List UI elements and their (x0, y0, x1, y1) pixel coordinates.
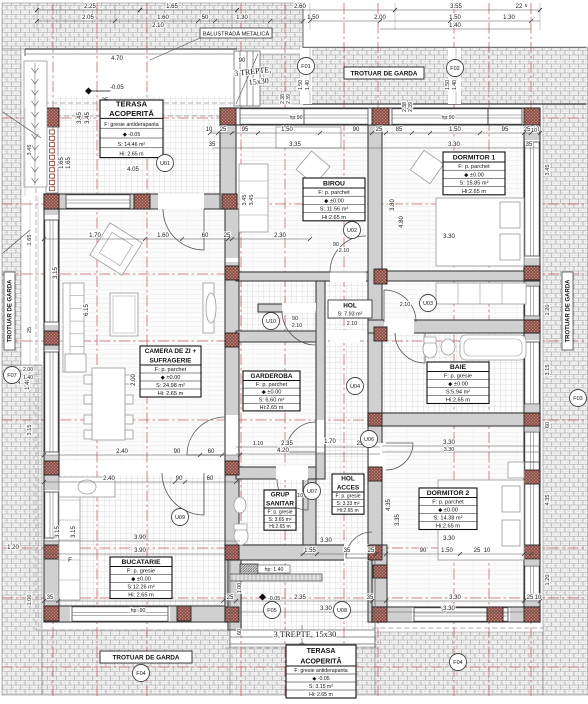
svg-text:35: 35 (344, 548, 351, 554)
svg-text:2.10: 2.10 (400, 302, 411, 308)
svg-text:GRUP: GRUP (271, 492, 290, 499)
svg-text:4.20: 4.20 (277, 448, 289, 454)
svg-text:3.30: 3.30 (448, 142, 460, 148)
svg-text:90: 90 (420, 548, 427, 554)
svg-text:◆ ±0.00: ◆ ±0.00 (161, 375, 181, 381)
svg-text:2.39: 2.39 (408, 102, 414, 112)
svg-text:3.45: 3.45 (249, 195, 255, 206)
svg-text:35: 35 (209, 142, 216, 148)
svg-text:2.60: 2.60 (294, 4, 306, 10)
svg-text:SUFRAGERIE: SUFRAGERIE (150, 358, 193, 365)
svg-text:F04: F04 (136, 671, 145, 677)
svg-text:2.30: 2.30 (274, 233, 286, 239)
svg-text:3.45: 3.45 (85, 112, 91, 124)
svg-text:25: 25 (368, 548, 375, 554)
svg-text:hp:90: hp:90 (290, 115, 303, 121)
svg-text:22: 22 (516, 4, 523, 10)
svg-text:3.45: 3.45 (77, 112, 83, 124)
svg-text:3.30: 3.30 (444, 447, 455, 453)
svg-text:3.55: 3.55 (450, 4, 462, 10)
svg-text:F: p. gresie: F: p. gresie (444, 374, 472, 380)
svg-text:4.70: 4.70 (111, 56, 123, 62)
svg-text:Hi:2.65 m: Hi:2.65 m (260, 405, 284, 411)
svg-text:25: 25 (220, 127, 227, 133)
svg-text:S: 3.15 m²: S: 3.15 m² (309, 684, 333, 690)
svg-text:2.25: 2.25 (84, 4, 96, 10)
svg-text:3.15: 3.15 (55, 526, 61, 538)
svg-text:3.30: 3.30 (443, 536, 455, 542)
svg-text:S: 11.56 m²: S: 11.56 m² (320, 207, 349, 213)
svg-text:2.00: 2.00 (374, 15, 386, 21)
svg-text:TERASA: TERASA (307, 648, 336, 655)
svg-text:3.30: 3.30 (443, 440, 455, 446)
svg-text:60: 60 (207, 476, 214, 482)
svg-text:60: 60 (545, 422, 551, 428)
svg-text:3.45: 3.45 (545, 165, 551, 176)
svg-text:90: 90 (239, 58, 246, 64)
svg-text:3.90: 3.90 (134, 548, 146, 554)
svg-text:2.40: 2.40 (103, 476, 115, 482)
svg-text:F: gresie antiderapanta: F: gresie antiderapanta (104, 122, 159, 128)
svg-text:90: 90 (174, 449, 181, 455)
svg-text:3.80: 3.80 (390, 199, 396, 211)
svg-text:F02: F02 (450, 66, 459, 72)
svg-text:TROTUAR DE GARDA: TROTUAR DE GARDA (8, 279, 14, 343)
svg-text:◆ ±0.00: ◆ ±0.00 (131, 577, 151, 583)
svg-text:◆ ±0.00: ◆ ±0.00 (438, 508, 458, 514)
svg-text:F: p. gresie: F: p. gresie (127, 569, 155, 575)
svg-text:3.90: 3.90 (134, 535, 146, 541)
svg-text:F: F (68, 558, 72, 564)
svg-text:3.15: 3.15 (27, 425, 33, 436)
svg-text:U04: U04 (350, 384, 360, 390)
svg-text:1.40: 1.40 (23, 375, 33, 381)
svg-text:U02: U02 (347, 228, 357, 234)
svg-text:3.30: 3.30 (320, 606, 332, 612)
svg-text:TROTUAR DE GARDA: TROTUAR DE GARDA (112, 655, 179, 662)
svg-text:S:5.94 m²: S:5.94 m² (446, 390, 470, 396)
svg-text:S: 14.38 m²: S: 14.38 m² (434, 516, 463, 522)
svg-text:S: 6.60 m²: S: 6.60 m² (259, 397, 285, 403)
svg-text:DORMITOR 2: DORMITOR 2 (427, 490, 470, 497)
svg-text:1.20: 1.20 (545, 305, 551, 316)
svg-text:3.45: 3.45 (242, 195, 248, 206)
svg-text:2.35: 2.35 (281, 441, 293, 447)
svg-text:F05: F05 (267, 608, 276, 614)
svg-text:4.35: 4.35 (545, 495, 551, 506)
svg-text:60: 60 (237, 629, 243, 635)
svg-text:6.15: 6.15 (84, 304, 90, 316)
svg-text:2.05: 2.05 (82, 15, 94, 21)
svg-text:BALUSTRADĂ METALICĂ: BALUSTRADĂ METALICĂ (203, 31, 270, 38)
svg-text:BUCATARIE: BUCATARIE (121, 559, 160, 566)
svg-text:95: 95 (502, 127, 509, 133)
svg-text:1.50: 1.50 (298, 80, 304, 90)
svg-text:1.30: 1.30 (236, 15, 248, 21)
svg-text:ACOPERITĂ: ACOPERITĂ (109, 109, 154, 118)
svg-text:S: 24.98 m²: S: 24.98 m² (156, 383, 185, 389)
svg-text:U06: U06 (364, 437, 374, 443)
svg-text:F: p. parchet: F: p. parchet (318, 190, 350, 196)
svg-text:60: 60 (202, 233, 209, 239)
svg-text:90: 90 (292, 316, 298, 322)
svg-text:25: 25 (227, 595, 234, 601)
svg-text:F: p. parchet: F: p. parchet (256, 382, 288, 388)
svg-text:hp:90: hp:90 (442, 115, 455, 121)
svg-text:85: 85 (396, 127, 403, 133)
svg-text:4.05: 4.05 (127, 167, 139, 173)
svg-text:90: 90 (176, 476, 183, 482)
svg-text:1.60: 1.60 (157, 233, 169, 239)
svg-text:-0.05: -0.05 (110, 85, 124, 91)
svg-text:1.70: 1.70 (324, 439, 336, 445)
svg-text:10: 10 (531, 128, 537, 134)
svg-text:1.00: 1.00 (27, 595, 33, 606)
svg-text:1.10: 1.10 (253, 441, 264, 447)
svg-text:GARDEROBA: GARDEROBA (251, 373, 293, 380)
svg-text:35: 35 (47, 595, 54, 601)
svg-text:35: 35 (526, 142, 533, 148)
svg-text:2.00: 2.00 (131, 374, 137, 386)
svg-text:3.35: 3.35 (395, 514, 401, 526)
svg-text:1.65: 1.65 (166, 4, 178, 10)
svg-text:Hi:2.65 m: Hi:2.65 m (322, 215, 346, 221)
svg-text:S: 15.85 m²: S: 15.85 m² (460, 181, 489, 187)
svg-text:DORMITOR 1: DORMITOR 1 (453, 155, 496, 162)
svg-text:1.30: 1.30 (503, 15, 515, 21)
svg-text:Hi:2.65 m: Hi:2.65 m (337, 508, 358, 514)
svg-text:S: 3.33 m²: S: 3.33 m² (336, 501, 359, 507)
svg-text:U10: U10 (266, 319, 276, 325)
svg-text:3 TREPTE, 15x30: 3 TREPTE, 15x30 (274, 629, 337, 639)
svg-text:2.39: 2.39 (286, 94, 292, 104)
svg-text:◆ ±0.00: ◆ ±0.00 (262, 390, 282, 396)
svg-text:U07: U07 (307, 489, 317, 495)
svg-text:U08: U08 (337, 608, 347, 614)
svg-text:90: 90 (353, 127, 360, 133)
svg-text:1.40: 1.40 (449, 23, 461, 29)
svg-text:F01: F01 (301, 64, 310, 70)
svg-text:1.55: 1.55 (304, 548, 316, 554)
svg-text:Hi:2.65 m: Hi:2.65 m (269, 524, 290, 530)
svg-text:3.15: 3.15 (71, 526, 77, 538)
svg-text:1.40: 1.40 (305, 80, 311, 90)
svg-text:Hi:2.65 m: Hi:2.65 m (462, 189, 486, 195)
svg-text:BIROU: BIROU (323, 181, 345, 188)
svg-text:10: 10 (484, 548, 491, 554)
svg-text:1.50: 1.50 (281, 127, 293, 133)
svg-text:F04: F04 (453, 660, 462, 666)
svg-text:S: 3.65 m²: S: 3.65 m² (268, 517, 291, 523)
svg-text:3.30: 3.30 (449, 595, 461, 601)
svg-text:F: p. parchet: F: p. parchet (432, 500, 464, 506)
svg-text:S: 7.93 m²: S: 7.93 m² (338, 312, 363, 318)
svg-text:F07: F07 (7, 373, 16, 379)
svg-text:hp:-90: hp:-90 (131, 608, 146, 614)
svg-text:3.35: 3.35 (289, 142, 301, 148)
svg-text:1.50: 1.50 (449, 127, 461, 133)
svg-text:S:12.26 m²: S:12.26 m² (127, 585, 154, 591)
svg-text:3.45: 3.45 (27, 145, 33, 156)
svg-text:2.35: 2.35 (294, 595, 306, 601)
svg-text:◆ ±0.00: ◆ ±0.00 (464, 172, 484, 178)
svg-text:TERASA: TERASA (116, 100, 148, 109)
svg-text:25: 25 (224, 233, 231, 239)
svg-text:Hi: 2.65 m: Hi: 2.65 m (309, 692, 333, 698)
svg-text:TROTUAR DE GARDA: TROTUAR DE GARDA (350, 71, 417, 78)
svg-text:Hi: 2.65 m: Hi: 2.65 m (128, 593, 154, 599)
svg-text:1.50: 1.50 (445, 80, 451, 90)
svg-text:HOL: HOL (341, 476, 355, 483)
svg-text:CAMERA DE ZI +: CAMERA DE ZI + (145, 348, 197, 355)
svg-text:F: gresie antiderapanta: F: gresie antiderapanta (294, 668, 347, 674)
svg-text:3.15: 3.15 (53, 267, 59, 279)
svg-text:3.30: 3.30 (320, 538, 332, 544)
svg-text:10: 10 (206, 127, 213, 133)
svg-text:TROTUAR DE GARDA: TROTUAR DE GARDA (566, 279, 572, 343)
svg-text:25: 25 (527, 595, 534, 601)
svg-text:Hi: 2.65 m: Hi: 2.65 m (158, 391, 184, 397)
svg-text:2.40: 2.40 (116, 449, 128, 455)
svg-text:2.10: 2.10 (339, 248, 350, 254)
svg-text:2.10: 2.10 (347, 321, 358, 327)
svg-text:HOL: HOL (343, 303, 357, 310)
svg-text:1.50: 1.50 (307, 15, 319, 21)
svg-text:3.30: 3.30 (443, 606, 455, 612)
svg-text:1.40: 1.40 (452, 80, 458, 90)
svg-text:hp: 1.40: hp: 1.40 (265, 567, 284, 573)
svg-text:BAIE: BAIE (450, 364, 467, 371)
svg-text:1.70: 1.70 (89, 233, 101, 239)
svg-text:ACCES: ACCES (337, 485, 360, 492)
svg-text:F03: F03 (573, 396, 582, 402)
svg-text:U03: U03 (423, 301, 433, 307)
svg-text:F: p. parchet: F: p. parchet (458, 164, 490, 170)
svg-text:1.20: 1.20 (7, 545, 19, 551)
svg-text:1.65: 1.65 (66, 157, 72, 169)
svg-text:◆ ±0.00: ◆ ±0.00 (448, 382, 468, 388)
svg-text:50: 50 (202, 15, 209, 21)
svg-text:SANITAR: SANITAR (266, 501, 294, 508)
svg-text:U01: U01 (160, 161, 170, 167)
svg-text:1.00: 1.00 (237, 583, 243, 594)
svg-text:4.35: 4.35 (386, 499, 392, 511)
svg-text:Hi: 2.65 m: Hi: 2.65 m (119, 152, 144, 158)
svg-text:ACOPERITĂ: ACOPERITĂ (300, 657, 341, 666)
svg-text:1.50: 1.50 (441, 548, 453, 554)
svg-text:Hi:2.65 m: Hi:2.65 m (446, 398, 470, 404)
svg-text:U09: U09 (175, 515, 185, 521)
svg-text:3.15: 3.15 (545, 365, 551, 376)
svg-text:◆ ±0.00: ◆ ±0.00 (324, 198, 344, 204)
svg-text:25: 25 (474, 548, 481, 554)
svg-text:1.20: 1.20 (545, 575, 551, 586)
svg-text:2.10: 2.10 (292, 323, 303, 329)
svg-text:4.80: 4.80 (399, 216, 405, 228)
svg-text:95: 95 (242, 127, 249, 133)
svg-text:2.00: 2.00 (23, 367, 33, 373)
svg-text:1.65: 1.65 (59, 157, 65, 169)
svg-text:2.10: 2.10 (152, 23, 164, 29)
svg-text:◆ -0.05: ◆ -0.05 (312, 676, 329, 682)
svg-text:F: p. gresie: F: p. gresie (335, 493, 360, 499)
svg-text:F: p. parchet: F: p. parchet (155, 367, 187, 373)
svg-text:25: 25 (376, 127, 383, 133)
svg-text:F: p. gresie: F: p. gresie (267, 509, 292, 515)
svg-text:1.65: 1.65 (27, 235, 33, 246)
svg-text:Hi:2.65 m: Hi:2.65 m (436, 524, 460, 530)
svg-text:60: 60 (208, 449, 215, 455)
svg-text:3.30: 3.30 (443, 234, 455, 240)
svg-text:1.60: 1.60 (157, 15, 169, 21)
svg-text:◆ -0.05: ◆ -0.05 (123, 132, 141, 138)
svg-text:25: 25 (27, 327, 33, 333)
svg-text:S: 14.46 m²: S: 14.46 m² (118, 142, 146, 148)
